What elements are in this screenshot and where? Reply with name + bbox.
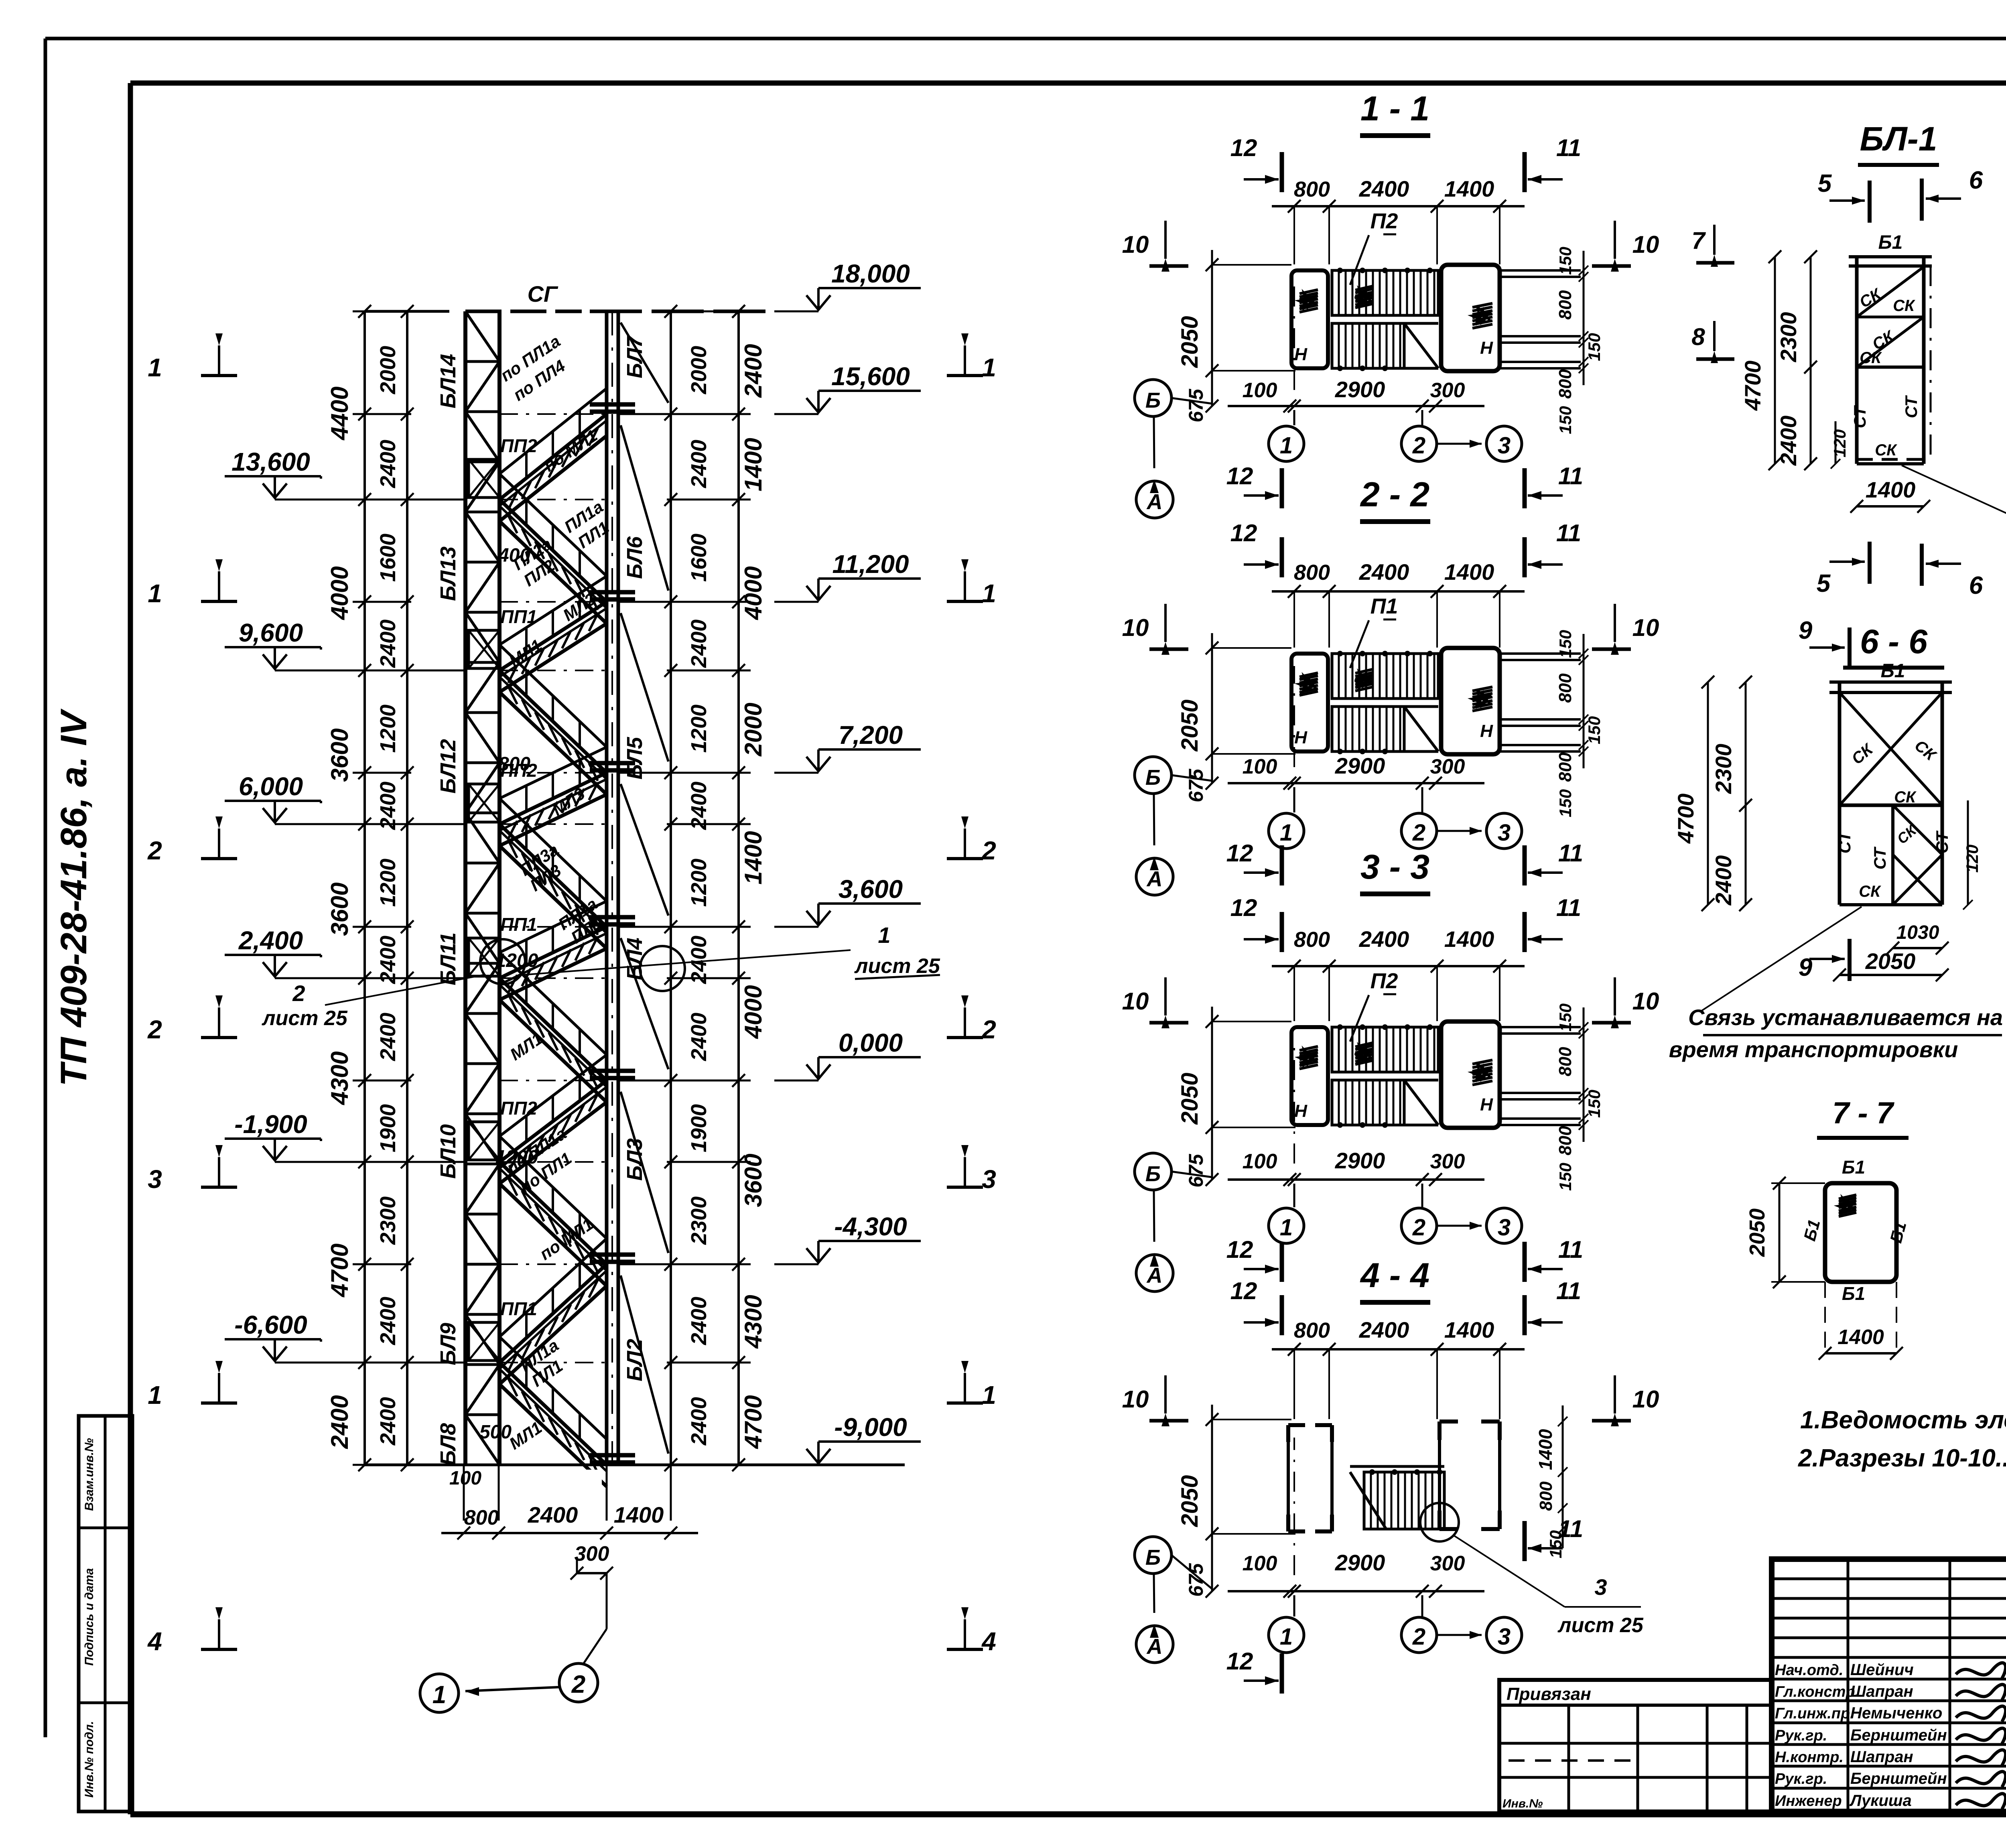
svg-text:675: 675 bbox=[1185, 768, 1207, 802]
svg-text:500: 500 bbox=[479, 1422, 512, 1443]
plan 1 - 1 axis circles bbox=[1293, 410, 1295, 425]
svg-text:12: 12 bbox=[1226, 1648, 1253, 1675]
svg-text:БЛ6: БЛ6 bbox=[623, 536, 647, 579]
svg-text:11,200: 11,200 bbox=[832, 550, 909, 579]
svg-text:-1,900: -1,900 bbox=[234, 1110, 307, 1139]
svg-text:БЛ3: БЛ3 bbox=[623, 1138, 647, 1181]
svg-text:150: 150 bbox=[1556, 1003, 1575, 1032]
plan 1 - 1 row axis circles Б and А bbox=[1135, 380, 1172, 416]
plan 1 - 1 top dimension chain 800/2400/1400 bbox=[1272, 205, 1525, 207]
svg-text:11: 11 bbox=[1558, 1236, 1583, 1263]
svg-text:150: 150 bbox=[1585, 1090, 1604, 1118]
svg-text:2: 2 bbox=[147, 836, 162, 865]
svg-text:2400: 2400 bbox=[1359, 926, 1409, 952]
svg-text:800: 800 bbox=[464, 1506, 499, 1529]
svg-text:150: 150 bbox=[1556, 247, 1575, 275]
svg-text:2400: 2400 bbox=[528, 1502, 578, 1527]
plan 1 - 1 right landing slab bbox=[1441, 265, 1500, 371]
plan 1 - 1 upper flight (hatched) bbox=[1332, 270, 1438, 315]
svg-text:3,600: 3,600 bbox=[839, 875, 903, 904]
svg-text:2: 2 bbox=[571, 1671, 585, 1698]
svg-text:2: 2 bbox=[1412, 433, 1425, 459]
svg-text:БЛ10: БЛ10 bbox=[436, 1124, 460, 1179]
svg-text:Б1: Б1 bbox=[1881, 660, 1905, 682]
svg-text:ТП 409-28-41.86, а. IV: ТП 409-28-41.86, а. IV bbox=[53, 709, 94, 1086]
svg-text:800: 800 bbox=[1555, 752, 1575, 782]
svg-text:лист 25: лист 25 bbox=[1557, 1614, 1644, 1637]
svg-text:2400: 2400 bbox=[687, 782, 711, 830]
svg-text:П1: П1 bbox=[1370, 594, 1398, 618]
svg-text:800: 800 bbox=[1555, 369, 1575, 399]
svg-text:2050: 2050 bbox=[1177, 316, 1203, 368]
plan 4 - 4 single flight hatched bbox=[1350, 1465, 1444, 1468]
svg-text:13,600: 13,600 bbox=[231, 447, 310, 476]
6-6 callout to note bbox=[1701, 907, 1862, 1011]
svg-text:1900: 1900 bbox=[376, 1104, 400, 1152]
annex table Привязан bbox=[1499, 1680, 1772, 1811]
svg-text:150: 150 bbox=[1585, 716, 1604, 744]
svg-text:БЛ12: БЛ12 bbox=[436, 739, 460, 794]
svg-text:П2: П2 bbox=[1370, 969, 1398, 993]
svg-text:СК: СК bbox=[1911, 737, 1940, 765]
stair flight bbox=[499, 773, 607, 824]
plan 4 - 4 axis circles bbox=[1293, 1595, 1295, 1616]
svg-text:4300: 4300 bbox=[326, 1051, 353, 1105]
6-6 column body bbox=[1829, 680, 1952, 684]
svg-text:0,000: 0,000 bbox=[839, 1028, 903, 1057]
svg-text:3: 3 bbox=[1498, 1624, 1511, 1650]
svg-text:1200: 1200 bbox=[495, 950, 538, 971]
plan 3 - 3 right landing slab bbox=[1441, 1021, 1500, 1128]
svg-text:3600: 3600 bbox=[740, 1153, 767, 1207]
svg-text:100: 100 bbox=[1243, 755, 1277, 778]
svg-text:675: 675 bbox=[1185, 1153, 1207, 1188]
svg-text:Н: Н bbox=[1294, 1101, 1308, 1121]
svg-text:2900: 2900 bbox=[1335, 1148, 1385, 1173]
stair flight bbox=[499, 500, 607, 602]
svg-text:3: 3 bbox=[1498, 1214, 1511, 1241]
svg-text:10: 10 bbox=[1122, 988, 1149, 1015]
svg-text:3: 3 bbox=[1498, 820, 1511, 846]
svg-text:5: 5 bbox=[1818, 170, 1832, 197]
svg-text:1200: 1200 bbox=[376, 859, 400, 907]
svg-text:1400: 1400 bbox=[1444, 176, 1494, 201]
svg-text:2300: 2300 bbox=[687, 1196, 711, 1245]
svg-text:1400: 1400 bbox=[1444, 559, 1494, 585]
svg-text:12: 12 bbox=[1226, 1236, 1253, 1263]
svg-text:6: 6 bbox=[1969, 572, 1983, 599]
plan 4 - 4 left dims 2050/675 bbox=[1211, 1405, 1213, 1591]
svg-text:СК: СК bbox=[1848, 740, 1877, 768]
plan 4 - 4 top dimension chain 800/2400/1400 bbox=[1272, 1348, 1525, 1350]
svg-text:1200: 1200 bbox=[495, 1147, 538, 1168]
svg-text:1: 1 bbox=[148, 1381, 162, 1409]
svg-text:800: 800 bbox=[1294, 560, 1330, 585]
svg-text:100: 100 bbox=[1243, 1150, 1277, 1173]
svg-text:2400: 2400 bbox=[687, 1397, 711, 1446]
svg-text:8: 8 bbox=[1691, 323, 1705, 350]
axis circles below elevation bbox=[420, 1674, 459, 1712]
svg-text:2900: 2900 bbox=[1335, 753, 1385, 778]
svg-text:10: 10 bbox=[1632, 988, 1659, 1015]
svg-text:Б: Б bbox=[1145, 766, 1161, 790]
svg-text:2050: 2050 bbox=[1177, 1072, 1203, 1125]
plan 3 - 3 bottom dimension chain 100/2900/300 bbox=[1228, 1178, 1484, 1181]
svg-text:СК: СК bbox=[1894, 821, 1920, 847]
stair flight bbox=[499, 602, 607, 670]
svg-text:10: 10 bbox=[1122, 1386, 1149, 1413]
plan 1 - 1 bottom dimension chain 100/2900/300 bbox=[1228, 405, 1484, 407]
landing flange marks right tower bbox=[590, 402, 635, 407]
svg-text:2900: 2900 bbox=[1335, 1550, 1385, 1575]
svg-text:300: 300 bbox=[1430, 1150, 1465, 1173]
svg-text:300: 300 bbox=[1430, 1552, 1465, 1575]
plan 3 - 3 left dims 2050/675 bbox=[1211, 1007, 1213, 1180]
svg-text:6 - 6: 6 - 6 bbox=[1860, 623, 1928, 660]
svg-text:2400: 2400 bbox=[1711, 855, 1736, 906]
svg-text:18,000: 18,000 bbox=[831, 259, 910, 288]
svg-text:Инв.№: Инв.№ bbox=[1502, 1797, 1543, 1810]
plan 2 - 2 left landing slab bbox=[1291, 654, 1328, 751]
svg-text:4400: 4400 bbox=[326, 386, 353, 440]
svg-text:1400: 1400 bbox=[1444, 926, 1494, 952]
plan 2 - 2 row axis circles Б and А bbox=[1135, 757, 1172, 794]
stair flight bbox=[499, 978, 607, 1080]
svg-text:Взам.инв.№: Взам.инв.№ bbox=[83, 1438, 96, 1511]
svg-text:2300: 2300 bbox=[1776, 312, 1801, 363]
svg-text:2000: 2000 bbox=[376, 346, 400, 394]
svg-text:2000: 2000 bbox=[740, 703, 767, 756]
plan 1 - 1 section cut marks bbox=[1280, 152, 1284, 192]
svg-text:БЛ8: БЛ8 bbox=[436, 1423, 460, 1466]
svg-text:1600: 1600 bbox=[687, 534, 711, 582]
plan 2 - 2 top dimension chain 800/2400/1400 bbox=[1272, 590, 1525, 593]
svg-text:12: 12 bbox=[1230, 894, 1257, 921]
svg-text:3: 3 bbox=[148, 1165, 162, 1194]
plan 2 - 2 handrail beams right bbox=[1500, 652, 1581, 655]
svg-text:9: 9 bbox=[1799, 617, 1813, 644]
svg-text:Шапран: Шапран bbox=[1850, 1683, 1913, 1700]
plan 3 - 3 top dimension chain 800/2400/1400 bbox=[1272, 965, 1525, 967]
svg-text:ПП1: ПП1 bbox=[500, 914, 537, 935]
svg-text:-4,300: -4,300 bbox=[834, 1212, 907, 1241]
svg-text:Б: Б bbox=[1145, 388, 1161, 412]
svg-text:Б: Б bbox=[1145, 1545, 1161, 1570]
svg-text:4 - 4: 4 - 4 bbox=[1360, 1256, 1429, 1295]
svg-text:11: 11 bbox=[1558, 840, 1583, 867]
svg-text:1: 1 bbox=[1280, 433, 1293, 459]
svg-text:300: 300 bbox=[1430, 755, 1465, 778]
svg-text:Бернштейн: Бернштейн bbox=[1850, 1726, 1947, 1744]
svg-text:150: 150 bbox=[1556, 789, 1575, 817]
svg-text:300: 300 bbox=[1430, 379, 1465, 402]
svg-text:БЛ5: БЛ5 bbox=[623, 737, 647, 780]
plan 4 - 4 detail callout circle bbox=[1420, 1503, 1459, 1541]
svg-text:СТ: СТ bbox=[1835, 830, 1854, 853]
svg-text:ПП1: ПП1 bbox=[500, 606, 537, 627]
svg-text:150: 150 bbox=[1556, 630, 1575, 658]
svg-text:2400: 2400 bbox=[740, 344, 767, 398]
svg-text:2: 2 bbox=[1412, 820, 1425, 846]
svg-text:800: 800 bbox=[1536, 1481, 1556, 1511]
svg-text:1400: 1400 bbox=[1444, 1317, 1494, 1342]
plan 2 - 2 axis circles bbox=[1293, 787, 1295, 812]
svg-text:А: А bbox=[1146, 490, 1163, 514]
svg-text:2.Разрезы 10-10...12-12 на лис: 2.Разрезы 10-10...12-12 на листе 26. bbox=[1798, 1444, 2006, 1472]
svg-text:Б: Б bbox=[1145, 1162, 1161, 1186]
svg-text:800: 800 bbox=[1555, 1047, 1575, 1076]
svg-text:3: 3 bbox=[1594, 1574, 1607, 1600]
stair flight bbox=[499, 824, 607, 927]
svg-text:10: 10 bbox=[1122, 614, 1149, 641]
svg-text:1: 1 bbox=[1280, 820, 1293, 846]
svg-text:Б1: Б1 bbox=[1886, 1220, 1910, 1245]
svg-text:1600: 1600 bbox=[376, 534, 400, 582]
plan 3 - 3 axis circles bbox=[1293, 1184, 1295, 1207]
svg-text:1400: 1400 bbox=[740, 438, 767, 491]
svg-text:Шейнич: Шейнич bbox=[1850, 1661, 1914, 1679]
svg-text:100: 100 bbox=[1243, 1552, 1277, 1575]
svg-text:1: 1 bbox=[982, 1381, 996, 1409]
svg-text:лист 25: лист 25 bbox=[261, 1007, 348, 1030]
plan 3 - 3 upper flight (hatched) bbox=[1332, 1027, 1438, 1072]
svg-text:7 - 7: 7 - 7 bbox=[1832, 1096, 1895, 1130]
plan 1 - 1 handrail beams right bbox=[1500, 269, 1581, 272]
plan 4 - 4 bottom dimension chain 100/2900/300 bbox=[1228, 1590, 1484, 1592]
svg-text:11: 11 bbox=[1556, 894, 1581, 921]
svg-text:1200: 1200 bbox=[687, 705, 711, 753]
svg-text:БЛ-1: БЛ-1 bbox=[1860, 120, 1937, 158]
svg-text:Немыченко: Немыченко bbox=[1850, 1704, 1942, 1722]
left tower БЛ column (ladder with braces) bbox=[463, 311, 467, 1465]
svg-text:Гл.констр.: Гл.констр. bbox=[1775, 1684, 1859, 1700]
svg-text:2: 2 bbox=[1412, 1214, 1425, 1241]
svg-text:1400: 1400 bbox=[1837, 1326, 1884, 1349]
plan 1 - 1 left landing slab bbox=[1291, 270, 1328, 368]
svg-text:10: 10 bbox=[1632, 614, 1659, 641]
svg-text:СК: СК bbox=[1859, 883, 1881, 900]
svg-text:12: 12 bbox=[1230, 1277, 1257, 1304]
svg-text:1030: 1030 bbox=[1896, 922, 1939, 943]
svg-text:2400: 2400 bbox=[376, 619, 400, 668]
plan 4 - 4 right dim chain bbox=[1562, 1405, 1564, 1548]
elevation base and bottom dims bbox=[365, 1464, 905, 1466]
title block outer bbox=[1772, 1559, 2006, 1811]
svg-text:2400: 2400 bbox=[376, 936, 400, 984]
svg-text:5: 5 bbox=[1817, 570, 1831, 597]
svg-text:СТ: СТ bbox=[1902, 395, 1921, 418]
plan 1 - 1 lower flight (hatched with break) bbox=[1332, 323, 1404, 368]
svg-text:Инженер: Инженер bbox=[1775, 1793, 1842, 1809]
stair flight bbox=[499, 1264, 607, 1363]
svg-text:1: 1 bbox=[1280, 1214, 1293, 1241]
svg-text:Н: Н bbox=[1480, 721, 1493, 741]
svg-text:Шапран: Шапран bbox=[1850, 1748, 1913, 1766]
svg-text:800: 800 bbox=[1555, 1126, 1575, 1156]
svg-text:БЛ11: БЛ11 bbox=[436, 932, 460, 985]
svg-text:БЛ7: БЛ7 bbox=[623, 335, 647, 378]
plan 4 - 4 left slab corner brackets bbox=[1288, 1423, 1305, 1427]
svg-text:1400: 1400 bbox=[614, 1502, 664, 1527]
svg-text:Бернштейн: Бернштейн bbox=[1850, 1770, 1947, 1787]
svg-text:ПП2: ПП2 bbox=[500, 1098, 537, 1119]
svg-text:Н: Н bbox=[1480, 1095, 1493, 1115]
svg-text:10: 10 bbox=[1632, 231, 1659, 258]
svg-text:Б1: Б1 bbox=[1842, 1283, 1865, 1304]
plan 3 - 3 lower flight (hatched with break) bbox=[1332, 1080, 1404, 1125]
stair flight bbox=[499, 1363, 607, 1465]
svg-text:15,600: 15,600 bbox=[831, 362, 910, 391]
svg-text:100: 100 bbox=[449, 1468, 481, 1489]
svg-text:800: 800 bbox=[1555, 673, 1575, 703]
svg-text:время транспортировки: время транспортировки bbox=[1669, 1037, 1958, 1062]
plan 3 - 3 handrail beams right bbox=[1500, 1026, 1581, 1028]
svg-text:1200: 1200 bbox=[687, 859, 711, 907]
svg-text:2400: 2400 bbox=[376, 782, 400, 830]
svg-text:Нач.отд.: Нач.отд. bbox=[1775, 1662, 1843, 1679]
БЛ-1 dims bbox=[1774, 257, 1776, 464]
svg-text:А: А bbox=[1146, 867, 1163, 891]
elevation level lines with ticks bbox=[353, 311, 411, 313]
svg-text:3 - 3: 3 - 3 bbox=[1360, 848, 1429, 886]
title block left signature table bbox=[1847, 1559, 1850, 1811]
svg-text:11: 11 bbox=[1558, 463, 1583, 489]
svg-text:2400: 2400 bbox=[326, 1395, 353, 1449]
svg-text:2 - 2: 2 - 2 bbox=[1360, 475, 1429, 514]
svg-text:2400: 2400 bbox=[376, 440, 400, 488]
plan 3 - 3 row axis circles Б and А bbox=[1135, 1153, 1172, 1190]
svg-text:СТ: СТ bbox=[1850, 405, 1869, 428]
svg-text:800: 800 bbox=[1294, 1318, 1330, 1342]
svg-text:БЛ9: БЛ9 bbox=[436, 1323, 460, 1365]
svg-text:11: 11 bbox=[1556, 134, 1581, 161]
svg-text:12: 12 bbox=[1230, 520, 1257, 546]
svg-text:Н.контр.: Н.контр. bbox=[1775, 1749, 1844, 1766]
svg-text:4000: 4000 bbox=[740, 566, 767, 620]
plan 4 - 4 right slab corner brackets bbox=[1440, 1420, 1458, 1424]
svg-text:СК: СК bbox=[1856, 285, 1884, 311]
svg-text:БЛ14: БЛ14 bbox=[436, 354, 460, 408]
svg-text:2300: 2300 bbox=[1711, 744, 1736, 794]
plan 4 - 4 section cut marks bbox=[1280, 1295, 1284, 1335]
svg-text:7: 7 bbox=[1691, 227, 1706, 254]
svg-text:3600: 3600 bbox=[326, 882, 353, 936]
svg-text:10: 10 bbox=[1632, 1386, 1659, 1413]
svg-text:12: 12 bbox=[1226, 840, 1253, 867]
stair flight bbox=[499, 670, 607, 773]
svg-text:1: 1 bbox=[1280, 1624, 1293, 1650]
svg-text:2050: 2050 bbox=[1177, 1475, 1203, 1527]
svg-text:СК: СК bbox=[1894, 788, 1917, 806]
svg-text:120: 120 bbox=[1963, 845, 1982, 873]
plan 2 - 2 lower flight (hatched with break) bbox=[1332, 707, 1404, 751]
svg-text:Рук.гр.: Рук.гр. bbox=[1775, 1727, 1827, 1744]
plan 2 - 2 upper flight (hatched) bbox=[1332, 654, 1438, 699]
svg-text:Лукиша: Лукиша bbox=[1849, 1792, 1912, 1809]
svg-text:2400: 2400 bbox=[687, 619, 711, 668]
right tower column bbox=[605, 311, 609, 1465]
svg-text:1 - 1: 1 - 1 bbox=[1360, 89, 1429, 128]
svg-text:300: 300 bbox=[575, 1542, 609, 1566]
svg-text:Подпись и дата: Подпись и дата bbox=[83, 1568, 96, 1665]
plan 3 - 3 section cut marks bbox=[1280, 912, 1284, 952]
svg-text:800: 800 bbox=[1555, 290, 1575, 320]
svg-text:1: 1 bbox=[982, 353, 996, 382]
svg-text:100: 100 bbox=[1243, 379, 1277, 402]
svg-text:800: 800 bbox=[498, 753, 530, 775]
stair flight bbox=[499, 414, 607, 500]
svg-text:СК: СК bbox=[1875, 441, 1897, 459]
svg-text:2900: 2900 bbox=[1335, 377, 1385, 402]
svg-text:2400: 2400 bbox=[687, 936, 711, 984]
plan 3 - 3 right dim chain 150/800/150 bbox=[1583, 1007, 1585, 1142]
svg-text:СК: СК bbox=[1893, 297, 1915, 315]
svg-text:4: 4 bbox=[981, 1627, 996, 1656]
svg-text:Связь устанавливается на: Связь устанавливается на bbox=[1688, 1005, 2003, 1030]
svg-text:4000: 4000 bbox=[326, 566, 353, 620]
stair flight bbox=[499, 1162, 607, 1264]
svg-text:4000: 4000 bbox=[740, 985, 767, 1039]
svg-text:150: 150 bbox=[1585, 333, 1604, 361]
svg-text:Н: Н bbox=[1294, 728, 1308, 747]
svg-text:СТ: СТ bbox=[1870, 846, 1889, 869]
svg-text:Н: Н bbox=[1294, 345, 1308, 364]
svg-text:2: 2 bbox=[147, 1015, 162, 1044]
svg-text:1: 1 bbox=[432, 1681, 446, 1709]
svg-text:150: 150 bbox=[1556, 406, 1575, 434]
svg-text:2400: 2400 bbox=[687, 1013, 711, 1061]
svg-text:400: 400 bbox=[498, 545, 530, 566]
svg-text:2400: 2400 bbox=[687, 1297, 711, 1345]
plan 1 - 1 right dim chain 150/800/150 bbox=[1583, 251, 1585, 385]
svg-text:2400: 2400 bbox=[376, 1013, 400, 1061]
svg-text:1: 1 bbox=[878, 922, 890, 948]
signatures column squiggles bbox=[1956, 1663, 2006, 1678]
svg-text:2: 2 bbox=[981, 1015, 996, 1044]
svg-text:2400: 2400 bbox=[1359, 559, 1409, 585]
outer page border bbox=[45, 37, 2006, 41]
svg-text:2400: 2400 bbox=[687, 440, 711, 488]
svg-text:675: 675 bbox=[1185, 388, 1207, 422]
svg-text:3600: 3600 bbox=[326, 728, 353, 782]
svg-text:2: 2 bbox=[1412, 1624, 1425, 1650]
svg-text:ПП2: ПП2 bbox=[500, 435, 537, 456]
svg-text:150: 150 bbox=[1556, 1163, 1575, 1191]
inner drawing frame bbox=[130, 81, 2006, 86]
svg-text:1400: 1400 bbox=[1535, 1429, 1556, 1470]
svg-text:9,600: 9,600 bbox=[239, 618, 303, 647]
svg-text:2000: 2000 bbox=[687, 346, 711, 394]
svg-text:Рук.гр.: Рук.гр. bbox=[1775, 1771, 1827, 1787]
svg-text:4700: 4700 bbox=[1740, 361, 1765, 411]
svg-text:11: 11 bbox=[1556, 520, 1581, 546]
svg-text:БЛ13: БЛ13 bbox=[436, 546, 460, 601]
plan 2 - 2 section cut marks bbox=[1280, 537, 1284, 577]
svg-text:800: 800 bbox=[1294, 928, 1330, 952]
svg-text:2400: 2400 bbox=[1776, 416, 1801, 466]
svg-text:А: А bbox=[1146, 1263, 1163, 1288]
svg-text:БЛ2: БЛ2 bbox=[623, 1339, 647, 1381]
svg-text:ПП1: ПП1 bbox=[500, 1298, 537, 1319]
svg-text:2050: 2050 bbox=[1865, 948, 1916, 974]
svg-text:3: 3 bbox=[1498, 433, 1511, 459]
detail callout circles in elevation bbox=[480, 939, 525, 984]
plan 2 - 2 left dims 2050/675 bbox=[1211, 633, 1213, 783]
6-6 dims bbox=[1707, 682, 1709, 905]
svg-text:А: А bbox=[1146, 1635, 1163, 1659]
svg-text:7,200: 7,200 bbox=[839, 721, 903, 749]
svg-text:2400: 2400 bbox=[376, 1297, 400, 1345]
